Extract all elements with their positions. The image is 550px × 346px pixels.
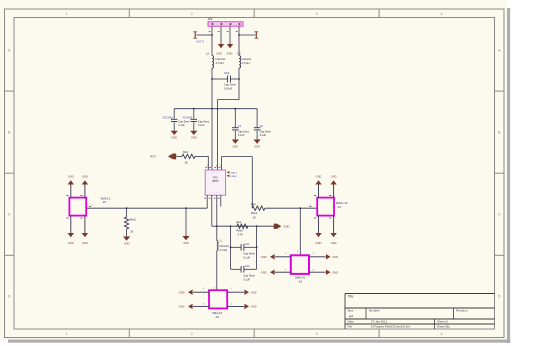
svg-text:Date: Date: [348, 320, 354, 324]
svg-text:4.7K: 4.7K: [238, 232, 244, 236]
svg-text:0.1uF: 0.1uF: [198, 124, 205, 127]
svg-text:-15: -15: [337, 205, 341, 209]
svg-text:GND: GND: [68, 241, 74, 245]
svg-text:GND: GND: [261, 255, 267, 259]
svg-text:1K: 1K: [130, 229, 133, 233]
svg-text:GND: GND: [68, 174, 74, 178]
svg-text:Inductor: Inductor: [242, 57, 252, 61]
svg-text:-15: -15: [298, 280, 302, 284]
svg-text:File: File: [348, 325, 353, 329]
svg-text:B: B: [8, 130, 11, 135]
svg-text:A: A: [498, 48, 501, 53]
svg-text:0.1uF: 0.1uF: [238, 134, 245, 137]
svg-text:Cap Semi: Cap Semi: [243, 273, 255, 277]
svg-text:GND: GND: [227, 52, 233, 56]
svg-text:Revision: Revision: [456, 309, 468, 313]
svg-text:·· ·· ·· ··: ·· ·· ·· ··: [211, 191, 220, 194]
svg-text:GND: GND: [251, 305, 257, 309]
svg-text:Res3: Res3: [237, 228, 244, 232]
svg-text:VCCAA5: VCCAA5: [163, 117, 174, 120]
svg-text:GND: GND: [316, 241, 322, 245]
svg-text:GND: GND: [124, 242, 130, 245]
svg-text:JP3: JP3: [208, 17, 213, 21]
svg-text:N.F.C: N.F.C: [197, 40, 205, 44]
svg-text:Res: Res: [237, 220, 242, 224]
svg-text:Cap Semi: Cap Semi: [178, 120, 189, 123]
svg-text:C11: C11: [245, 242, 250, 246]
svg-text:Drawn By:: Drawn By:: [437, 325, 451, 329]
svg-text:0.1uF: 0.1uF: [243, 277, 250, 281]
svg-text:GND: GND: [179, 305, 185, 309]
svg-text:Cap Semi: Cap Semi: [198, 120, 209, 123]
svg-text:0.1uF: 0.1uF: [178, 124, 185, 127]
svg-text:1K: 1K: [253, 215, 256, 219]
svg-text:Cap Semi: Cap Semi: [224, 83, 236, 87]
svg-text:Cap Semi: Cap Semi: [243, 251, 255, 255]
svg-text:GND: GND: [331, 174, 337, 178]
svg-text:C: C: [498, 212, 501, 217]
svg-text:C12: C12: [245, 264, 250, 268]
svg-text:Res2: Res2: [251, 211, 258, 215]
svg-text:Inductor: Inductor: [219, 244, 229, 248]
svg-text:Inductor: Inductor: [216, 57, 226, 61]
svg-text:Res2: Res2: [130, 218, 137, 222]
svg-text:GND: GND: [179, 290, 185, 294]
svg-text:Title: Title: [348, 295, 354, 299]
svg-text:GND: GND: [251, 290, 257, 294]
svg-text:STC: STC: [213, 175, 218, 179]
svg-text:GND: GND: [233, 145, 239, 148]
svg-text:D: D: [498, 294, 501, 299]
svg-text:4.7mH: 4.7mH: [242, 61, 250, 65]
svg-text:D: D: [8, 294, 11, 299]
svg-text:4.7mH: 4.7mH: [219, 248, 227, 252]
svg-text:GND: GND: [171, 137, 177, 140]
svg-text:4.7mH: 4.7mH: [216, 61, 224, 65]
svg-text:GND: GND: [332, 270, 338, 274]
svg-text:E:\Program Files\101\swmb\3.Sc: E:\Program Files\101\swmb\3.Sch: [371, 325, 411, 329]
svg-text:Cap Semi: Cap Semi: [260, 130, 271, 133]
svg-text:GND: GND: [191, 137, 197, 140]
svg-text:A4: A4: [349, 314, 353, 318]
svg-text:C: C: [8, 212, 11, 217]
svg-text:RST: RST: [150, 155, 156, 159]
svg-text:1K: 1K: [185, 161, 189, 165]
svg-text:0.01uF: 0.01uF: [224, 87, 233, 91]
svg-text:GND: GND: [216, 52, 222, 56]
svg-text:XTAL1: XTAL1: [230, 171, 237, 174]
svg-text:GND: GND: [331, 241, 337, 245]
svg-text:0.1uF: 0.1uF: [260, 134, 267, 137]
svg-text:Sheet of: Sheet of: [437, 320, 448, 324]
svg-text:GND: GND: [254, 145, 260, 148]
svg-text:Number: Number: [369, 309, 380, 313]
svg-text:-15: -15: [102, 200, 106, 204]
svg-text:R21: R21: [183, 150, 189, 154]
svg-text:Res: Res: [251, 202, 256, 206]
svg-text:GND: GND: [82, 174, 88, 178]
svg-text:XTAL2: XTAL2: [230, 175, 237, 178]
svg-text:GND: GND: [283, 224, 289, 228]
svg-text:GND: GND: [332, 255, 338, 259]
svg-text:-15: -15: [215, 315, 219, 319]
svg-text:·· ·· ·· ··: ·· ·· ·· ··: [211, 172, 220, 175]
svg-text:GND: GND: [261, 270, 267, 274]
svg-text:B: B: [498, 130, 501, 135]
svg-text:Size: Size: [348, 309, 354, 313]
svg-text:Cap Semi: Cap Semi: [238, 130, 249, 133]
svg-text:GND: GND: [82, 241, 88, 245]
svg-text:VCCAA5: VCCAA5: [182, 117, 193, 120]
svg-text:GF9: GF9: [224, 71, 230, 75]
svg-text:27-Jan-2011: 27-Jan-2011: [371, 320, 387, 324]
svg-text:8P05: 8P05: [212, 179, 219, 183]
svg-text:0.1uF: 0.1uF: [243, 255, 250, 259]
svg-text:A: A: [8, 48, 11, 53]
svg-text:GND: GND: [316, 174, 322, 178]
svg-text:GND: GND: [183, 242, 189, 245]
